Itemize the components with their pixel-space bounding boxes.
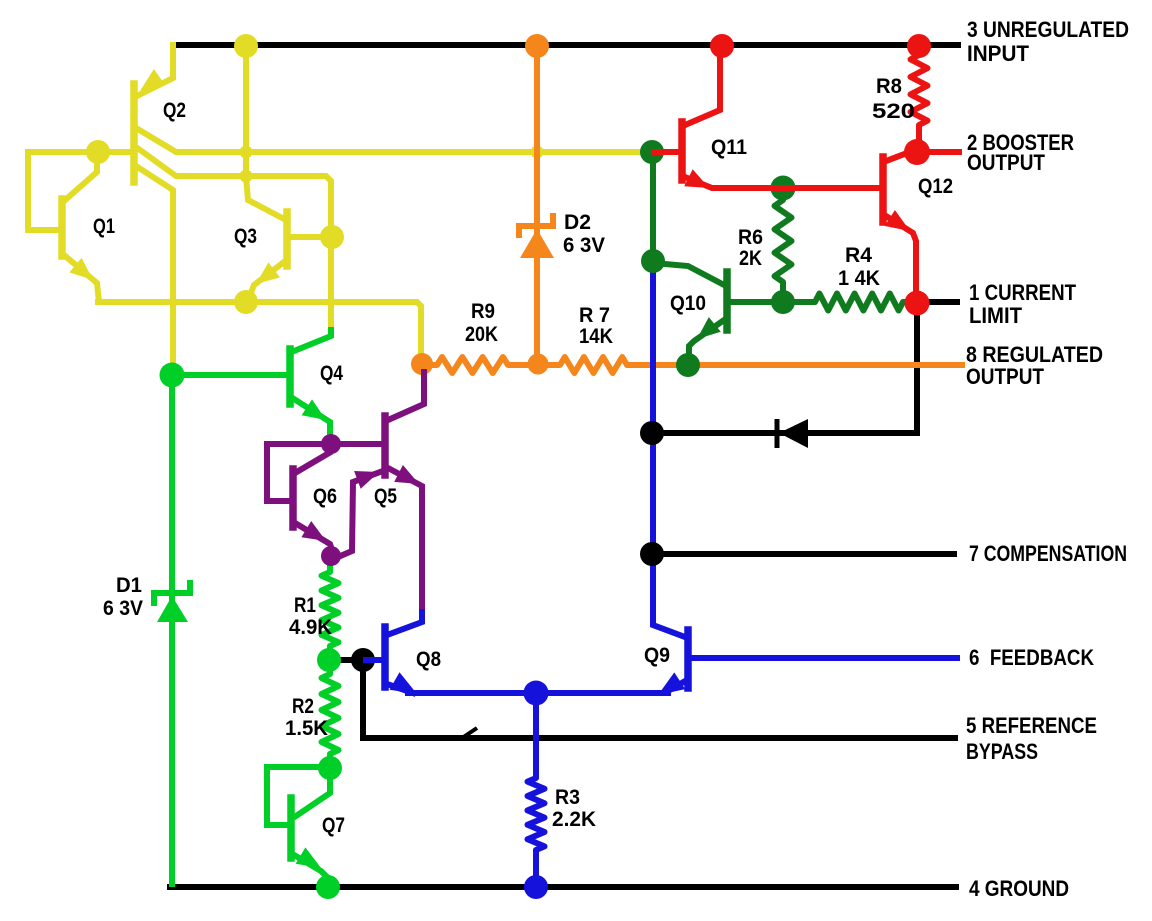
resistor R6 <box>775 188 792 302</box>
wire: Q12 collector to booster node <box>886 150 915 161</box>
tick mark on reference bypass line <box>462 728 477 738</box>
zener diode D2 cathode bar <box>519 216 553 235</box>
wire: pin 8 regulated output line <box>687 362 962 368</box>
resistor R8 <box>911 46 928 152</box>
svg-text:R6: R6 <box>738 226 763 249</box>
svg-text:LIMIT: LIMIT <box>969 303 1023 328</box>
junction dot pin 7 node <box>640 542 664 566</box>
wire: reference column D1 branch <box>169 375 175 884</box>
wire: bottom yellow rail <box>98 302 421 358</box>
wire: Q3 emitter down to yellow rail <box>249 262 284 298</box>
svg-text:R 7: R 7 <box>579 304 610 327</box>
wire: Q10 base lead <box>730 299 782 305</box>
resistor R7 <box>538 357 687 373</box>
wire: Q8-Q9 emitter line <box>408 690 668 696</box>
junction dot R9-R7-D2 node <box>528 354 549 375</box>
wire: Q11 base node down to Q10 collector node <box>650 152 656 261</box>
Q9 emitter arrow <box>658 672 685 695</box>
diode D3 (current limit clamp) <box>775 419 780 448</box>
wire: Q8 emitter to common line <box>387 684 413 693</box>
svg-text:Q9: Q9 <box>644 644 670 667</box>
wire: Q6 base loop <box>267 444 331 501</box>
wire: Q2 emitter from input rail <box>139 45 173 95</box>
wire: D2 column from input rail <box>534 45 540 364</box>
svg-text:2K: 2K <box>739 247 762 270</box>
wire: Q4 collector up to yellow line <box>294 330 331 351</box>
svg-text:Q11: Q11 <box>711 136 747 159</box>
svg-text:Q7: Q7 <box>322 814 345 837</box>
wire: pin 3 unregulated input rail <box>173 42 958 48</box>
wire: pin 7 compensation line <box>652 551 954 557</box>
junction dot pin 2 booster node <box>904 139 930 165</box>
wire: Q4 base lead <box>172 372 287 378</box>
transistor Q2 base bar <box>130 84 138 182</box>
Q5 right emitter arrow <box>394 465 419 484</box>
transistor Q12 base bar <box>879 157 887 222</box>
junction dot pin 5 node <box>351 648 375 672</box>
Q4 emitter arrow <box>302 399 326 420</box>
transistor Q6 base bar <box>289 469 297 527</box>
svg-text:D1: D1 <box>116 574 142 597</box>
svg-text:6 FEEDBACK: 6 FEEDBACK <box>969 645 1094 670</box>
svg-text:Q8: Q8 <box>416 648 441 671</box>
transistor Q11 base bar <box>678 122 686 180</box>
wire: Q12 emitter down to current limit node <box>886 216 916 296</box>
wire: Q6 collector to node <box>295 453 329 473</box>
transistor Q4 base bar <box>286 349 294 404</box>
resistor R9 <box>422 357 538 373</box>
svg-text:Q4: Q4 <box>320 362 343 385</box>
wire: Q2 collector line 2 down to Q3 base node <box>136 147 331 334</box>
wire: Q8 base lead <box>366 657 382 663</box>
wire: current limit to diode to compensation node <box>658 308 917 433</box>
transistor Q10 base bar <box>723 272 731 330</box>
junction dot Q5/Q6 base node <box>321 434 341 454</box>
svg-text:Q2: Q2 <box>163 99 186 122</box>
svg-text:Q1: Q1 <box>93 215 115 238</box>
junction dot on line 1 <box>240 146 253 159</box>
transistor Q5 base bar <box>381 416 389 475</box>
junction dot R9 left node <box>411 353 433 375</box>
wire: Q9 emitter to common line <box>668 680 687 691</box>
wire: Q5 left emitter to lower node <box>338 471 383 557</box>
junction dot D2 on input rail <box>525 34 549 58</box>
svg-text:2.2K: 2.2K <box>552 808 596 831</box>
svg-text:5 REFERENCE: 5 REFERENCE <box>966 713 1097 738</box>
wire: Q7 base loop <box>267 767 328 825</box>
svg-text:14K: 14K <box>579 325 613 348</box>
svg-text:1 CURRENT: 1 CURRENT <box>969 280 1076 305</box>
junction dot compensation-diode node <box>640 421 664 445</box>
transistor Q8 base bar <box>381 627 389 687</box>
Q12 emitter arrow <box>885 210 910 231</box>
transistor Q7 base bar <box>287 798 295 858</box>
Q2 emitter arrow <box>140 69 165 91</box>
svg-text:Q12: Q12 <box>918 175 953 198</box>
svg-text:20K: 20K <box>465 323 498 346</box>
wire: Q5 base lead <box>331 441 382 447</box>
wire: Q11 emitter to Q12 base line <box>685 177 880 188</box>
wire: Q2 collector line 1 to Q11 base <box>136 128 646 152</box>
junction dot Q1 base-collector <box>86 140 110 164</box>
wire: Q1 base loop <box>28 152 134 230</box>
junction dot on bottom yellow rail <box>234 290 258 314</box>
transistor Q9 base bar <box>684 630 692 688</box>
resistor R4 <box>782 294 914 311</box>
wire: Q8 collector from purple column <box>387 612 422 635</box>
wire: pin 4 ground rail <box>170 884 956 890</box>
junction dot Q3 base node <box>320 225 344 249</box>
junction dot Q7 emitter on ground <box>316 875 340 899</box>
Q5 left emitter arrow <box>354 471 379 489</box>
transistor Q3 base bar <box>283 212 291 266</box>
junction dot R3 on ground rail <box>524 875 548 899</box>
wire: input rail dot vertical to Q3 collector node <box>243 46 249 176</box>
wire: pin 1 current limit stub <box>918 299 957 305</box>
wire: Q5 collector up to R9 node <box>388 372 424 420</box>
zener diode D2 triangle <box>520 229 554 258</box>
Q7 emitter arrow <box>296 847 321 868</box>
svg-text:6 3V: 6 3V <box>103 597 143 620</box>
resistor R3 <box>528 693 545 887</box>
Q6 emitter arrow <box>301 521 326 541</box>
wire: Q10 collector diagonal <box>654 263 726 286</box>
junction dot on line 2 <box>240 170 253 183</box>
junction dot Q10 collector node <box>641 249 665 273</box>
wire: Q11 collector to input rail <box>685 50 720 125</box>
svg-text:OUTPUT: OUTPUT <box>967 150 1045 175</box>
svg-text:Q6: Q6 <box>313 485 337 508</box>
junction dot Q11 collector on rail <box>710 34 734 58</box>
wire: Q6 emitter to lower node <box>295 523 332 550</box>
junction dot R8 on input rail <box>907 34 931 58</box>
svg-text:4.9K: 4.9K <box>289 616 332 639</box>
svg-text:Q10: Q10 <box>670 292 706 315</box>
junction dot yellow-orange crossing <box>531 146 544 159</box>
svg-text:3 UNREGULATED: 3 UNREGULATED <box>967 17 1129 42</box>
svg-text:BYPASS: BYPASS <box>966 739 1038 764</box>
wire: Q4 emitter down to Q5/Q6 node <box>294 399 330 434</box>
svg-text:D2: D2 <box>564 211 591 234</box>
wire: Q1 collector to base dot <box>64 152 97 201</box>
wire: Q2 collector line 3 down to reference node <box>136 166 173 365</box>
svg-text:520: 520 <box>872 100 915 123</box>
wire: compensation column (blue) <box>653 262 685 637</box>
wire: Q3 collector bend <box>246 176 284 219</box>
junction dot R3 top <box>524 681 549 706</box>
wire: pin 2 booster output stub <box>917 149 959 155</box>
transistor Q1 base bar <box>58 199 66 256</box>
junction dot R6-R4 node <box>771 290 795 314</box>
wire: Q10 emitter down to regulated output node <box>689 320 724 358</box>
svg-text:R1: R1 <box>294 594 316 617</box>
svg-text:R4: R4 <box>845 244 872 267</box>
Q3 emitter arrow <box>256 262 280 284</box>
wire: Q3 base lead to node <box>290 234 332 240</box>
svg-text:OUTPUT: OUTPUT <box>966 364 1044 389</box>
junction dot Q2 net on input rail <box>234 34 258 58</box>
Q8 emitter arrow <box>390 672 418 694</box>
svg-text:1.5K: 1.5K <box>285 717 328 740</box>
svg-text:Q3: Q3 <box>234 225 257 248</box>
resistor R1 <box>322 556 339 660</box>
zener diode D1 cathode bar <box>154 583 190 603</box>
svg-text:4 GROUND: 4 GROUND <box>969 876 1069 901</box>
junction dot pin 1 current limit node <box>905 291 930 316</box>
wire: Q7 collector to node <box>296 770 330 816</box>
svg-text:R9: R9 <box>471 300 495 323</box>
svg-text:R2: R2 <box>292 695 314 718</box>
junction dot R2-Q7 node <box>318 756 342 780</box>
junction dot Q10 emitter on output line <box>676 353 700 377</box>
svg-text:Q5: Q5 <box>374 485 397 508</box>
wire: Q1 emitter to bottom yellow rail <box>64 255 99 302</box>
svg-text:7 COMPENSATION: 7 COMPENSATION <box>969 541 1127 566</box>
Q11 emitter arrow <box>684 169 709 188</box>
wire: pin 6 feedback line (Q9 base) <box>691 655 957 661</box>
Q10 emitter arrow <box>697 317 721 339</box>
junction dot Q5/Q6 emitter node <box>321 546 341 566</box>
junction dot R6 top node <box>771 176 796 201</box>
resistor R2 <box>322 660 339 767</box>
svg-text:R3: R3 <box>555 786 580 809</box>
junction dot reference node <box>160 363 185 388</box>
wire: pin 5 reference bypass line <box>340 660 955 738</box>
junction dot Q11 base node <box>640 140 664 164</box>
wire: Q11 base lead <box>654 149 679 155</box>
svg-text:6 3V: 6 3V <box>563 234 605 257</box>
wire: Q7 emitter to ground rail <box>294 855 327 877</box>
svg-text:1 4K: 1 4K <box>838 267 880 290</box>
junction dot R1-R2 node <box>317 648 341 672</box>
zener diode D1 triangle <box>157 596 188 622</box>
wire: Q5 right emitter down to Q8 collector <box>388 468 422 612</box>
svg-text:R8: R8 <box>876 75 902 98</box>
Q1 emitter arrow <box>69 258 93 280</box>
svg-text:INPUT: INPUT <box>967 41 1030 66</box>
